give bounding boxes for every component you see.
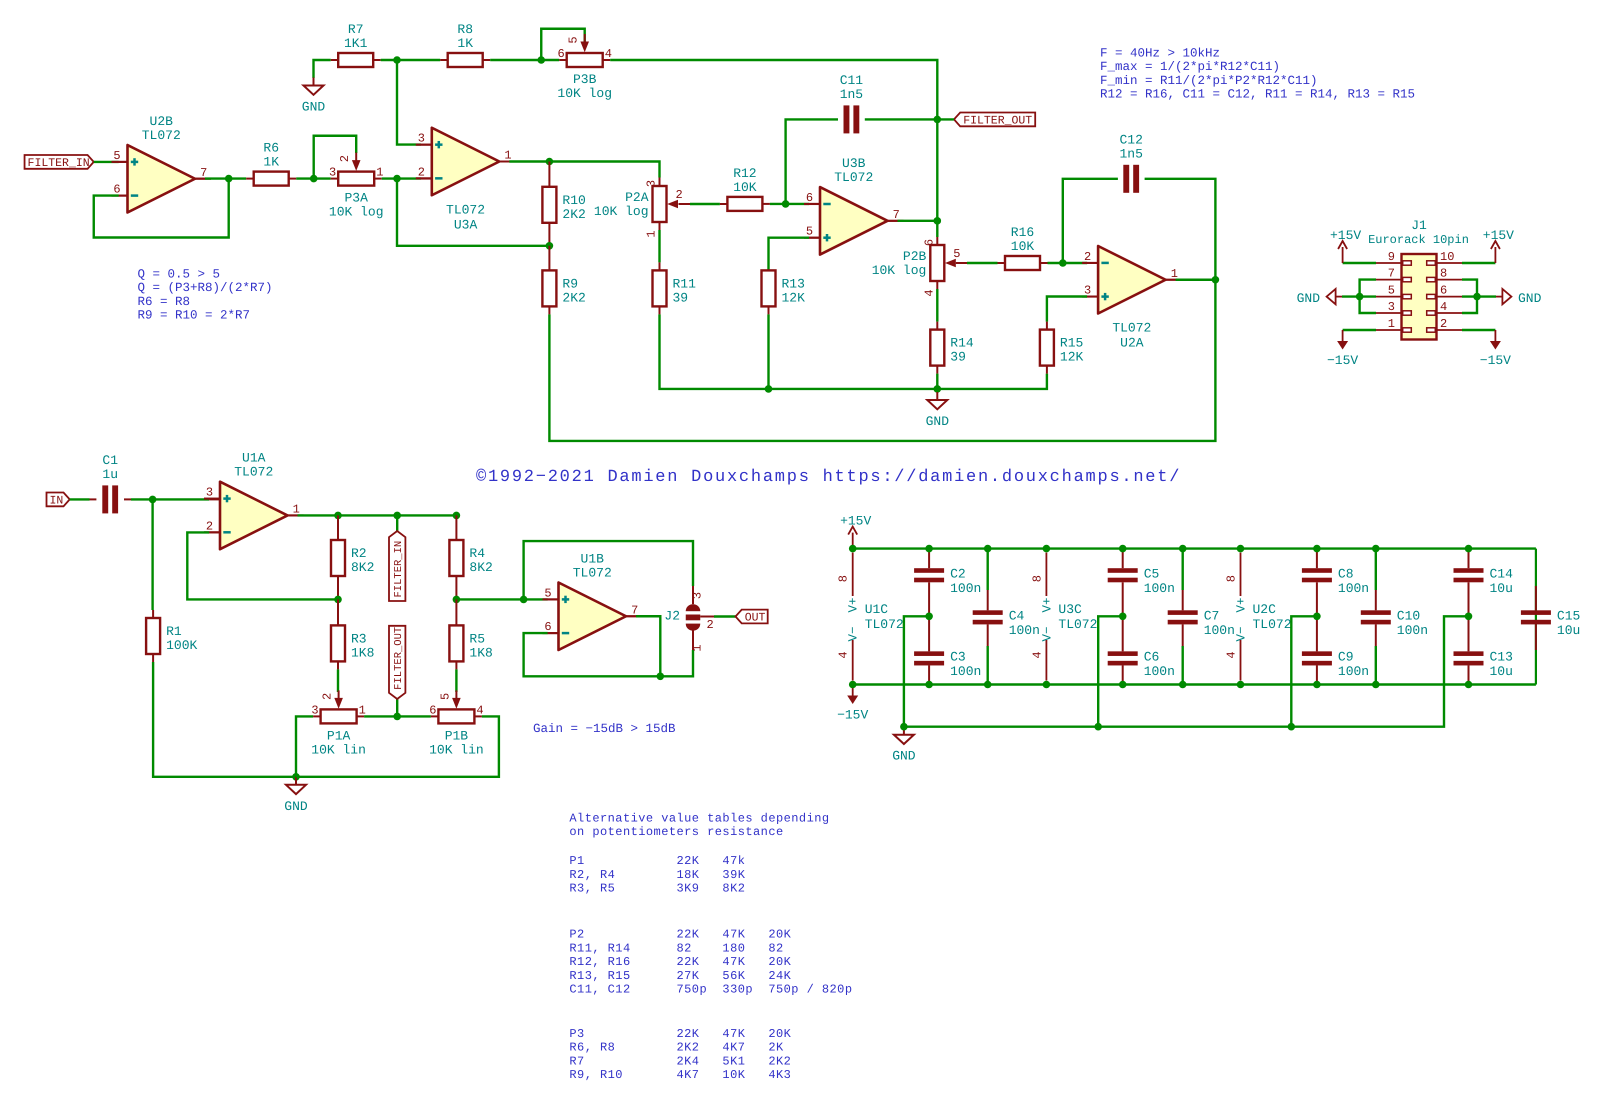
wire R3 to P1A wiper (337, 661, 339, 692)
svg-text:P1B: P1B (445, 728, 469, 743)
svg-text:9: 9 (1388, 250, 1395, 264)
wire J1 pin 9 to +15V (1343, 262, 1376, 264)
resistor R2 (331, 540, 374, 576)
junction -15V rail x=987.7 (984, 681, 992, 689)
wire R12 to U3B pin 6 (762, 203, 820, 205)
potentiometer P3A (329, 153, 384, 220)
junction U1A out R4 (453, 512, 461, 520)
potentiometer P2A (594, 180, 683, 238)
svg-text:U3A: U3A (454, 217, 478, 232)
wire FILTER_IN to U2B pin 5 (94, 161, 128, 163)
svg-text:6: 6 (429, 703, 436, 717)
svg-text:100n: 100n (1397, 623, 1428, 638)
junction +15V rail x=1122.7 (1119, 545, 1127, 553)
svg-text:V−: V− (1040, 626, 1054, 641)
svg-text:R9, R10 4K7 10K 4K3: R9, R10 4K7 10K 4K3 (569, 1068, 791, 1082)
svg-text:F = 40Hz > 10kHz: F = 40Hz > 10kHz (1100, 47, 1220, 61)
wire R14 bottom to ground bus (936, 366, 938, 389)
capacitor C7 (1168, 608, 1235, 638)
svg-text:P2A: P2A (625, 190, 649, 205)
junction J1 left GND (1356, 293, 1364, 301)
wire P3A to U3A pin 2 (374, 178, 432, 180)
wire R13 bottom to ground bus (768, 306, 770, 389)
svg-text:J1: J1 (1411, 218, 1427, 233)
resistor R4 (449, 540, 492, 576)
junction U1B pin5 feedback (520, 596, 528, 604)
svg-text:3: 3 (418, 132, 425, 146)
svg-text:10K: 10K (1011, 239, 1035, 254)
wire R5 top lead (455, 599, 457, 625)
wire P1B pin 4 to ground bus (296, 716, 499, 776)
svg-text:1: 1 (645, 230, 659, 237)
op-amp U1B (543, 552, 643, 651)
svg-text:100n: 100n (1338, 664, 1369, 679)
svg-text:−15V: −15V (1480, 353, 1511, 368)
svg-text:C9: C9 (1338, 649, 1354, 664)
power -15V right (1480, 330, 1511, 368)
power pins U2C (1225, 553, 1292, 681)
svg-text:6: 6 (557, 47, 564, 61)
svg-text:100n: 100n (1204, 623, 1235, 638)
svg-text:GND: GND (302, 100, 326, 115)
svg-text:1: 1 (691, 644, 705, 651)
svg-text:OUT: OUT (745, 612, 766, 625)
svg-text:−15V: −15V (837, 708, 868, 723)
J1 pin 3 (1376, 300, 1411, 315)
svg-text:FILTER_OUT: FILTER_OUT (393, 627, 405, 690)
svg-text:100n: 100n (1144, 664, 1175, 679)
notes gain (533, 722, 676, 736)
junction +15V rail x=987.7 (984, 545, 992, 553)
svg-text:2K2: 2K2 (562, 207, 585, 222)
svg-text:C10: C10 (1397, 608, 1420, 623)
svg-text:C11: C11 (840, 73, 864, 88)
resistor R15 (1040, 330, 1084, 366)
svg-text:TL072: TL072 (142, 128, 181, 143)
junction R10 R9 node (546, 242, 554, 250)
svg-text:100n: 100n (1009, 623, 1040, 638)
wire P1A pin 1 to P1B pin 6 (357, 715, 439, 717)
svg-text:TL072: TL072 (1253, 617, 1292, 632)
wire U3A output to P2A top (549, 162, 659, 186)
svg-text:−15V: −15V (1327, 353, 1358, 368)
wire feedback node to R9 R10 junction (397, 179, 549, 246)
svg-text:R11: R11 (673, 276, 697, 291)
resistor R12 (727, 166, 762, 211)
capacitor C10 (1361, 608, 1428, 638)
svg-text:7: 7 (1388, 267, 1395, 281)
svg-text:1K: 1K (457, 36, 473, 51)
svg-text:R15: R15 (1060, 336, 1083, 351)
svg-text:10K log: 10K log (594, 204, 649, 219)
wire R16 to U2A pin 2 (1040, 262, 1098, 264)
svg-text:C8: C8 (1338, 566, 1354, 581)
wire U2A pin 3 to R15 (1047, 297, 1098, 330)
wire J1 pin 2 to -15V (1462, 329, 1495, 331)
wire U2A output (1166, 279, 1216, 281)
J1 pin 6 (1427, 284, 1462, 299)
hierarchical label FILTER_OUT (954, 113, 1035, 128)
wire R9 bottom to U2A output feedback (549, 280, 1215, 441)
wire R1 top lead (151, 499, 154, 618)
wire J1 pin 10 to +15V (1462, 262, 1495, 264)
svg-text:2: 2 (676, 188, 683, 202)
junction ground bus left (900, 723, 908, 731)
wire R7 to R8 (373, 59, 448, 61)
wire down to U3A pin 3 (397, 60, 432, 145)
wire C8 C9 leads (1316, 549, 1318, 685)
svg-text:R7 2K4 5K1 2K2: R7 2K4 5K1 2K2 (569, 1054, 791, 1068)
ground symbol power section (892, 727, 916, 764)
op-amp U2A (1082, 246, 1182, 351)
svg-text:P3B: P3B (573, 72, 597, 87)
svg-text:Q = 0.5 > 5: Q = 0.5 > 5 (138, 268, 221, 282)
svg-text:100n: 100n (950, 581, 981, 596)
svg-text:U3C: U3C (1058, 602, 1082, 617)
wire R8 to P3B (483, 59, 567, 61)
svg-text:on potentiometers resistance: on potentiometers resistance (569, 825, 783, 839)
svg-text:R13, R15 27K 56K 24K: R13, R15 27K 56K 24K (569, 969, 791, 983)
svg-text:5: 5 (567, 36, 581, 43)
junction +15V rail x=1046.4 (1043, 545, 1051, 553)
power label GND right (1496, 289, 1542, 306)
svg-text:TL072: TL072 (446, 202, 485, 217)
svg-text:2: 2 (1084, 250, 1091, 264)
svg-text:C1: C1 (102, 453, 118, 468)
svg-text:2: 2 (707, 618, 714, 632)
wire R4 leads (455, 515, 457, 599)
ground symbol gain section (284, 777, 308, 814)
svg-text:4: 4 (922, 289, 936, 296)
power -15V supply (837, 685, 868, 723)
svg-text:C11, C12 750p 330p 750p: C11, C12 750p 330p 750p / 820p (569, 983, 852, 997)
svg-text:2: 2 (1440, 317, 1447, 331)
svg-text:100K: 100K (166, 638, 197, 653)
capacitor C6 (1108, 649, 1175, 679)
junction FILTER_OUT P1 node (393, 713, 401, 721)
capacitor C14 (1454, 566, 1514, 596)
wire R7 to ground (314, 60, 339, 78)
resistor R10 (542, 187, 585, 223)
potentiometer P1B (429, 690, 484, 757)
wire U3B output (888, 220, 938, 222)
power pins U1C (837, 553, 904, 681)
junction R4 R5 node (453, 596, 461, 604)
svg-text:C12: C12 (1119, 132, 1142, 147)
op-amp U3A (416, 128, 516, 233)
svg-text:Q = (P3+R8)/(2*R7): Q = (P3+R8)/(2*R7) (138, 281, 273, 295)
resistor R16 (1005, 225, 1040, 270)
svg-text:U1C: U1C (865, 602, 889, 617)
svg-text:8: 8 (1440, 267, 1447, 281)
junction +15V rail x=1468.5 (1465, 545, 1473, 553)
svg-text:C14: C14 (1490, 566, 1514, 581)
svg-text:4: 4 (837, 651, 851, 658)
junction U3A pin 2 node (393, 175, 401, 183)
wire C10 leads (1375, 549, 1377, 685)
J1 pin 1 (1376, 317, 1411, 332)
svg-text:4: 4 (1440, 300, 1447, 314)
wire C14 C13 leads (1468, 549, 1470, 685)
junction -15V rail x=1316.9 (1313, 681, 1321, 689)
svg-text:5: 5 (953, 247, 960, 261)
svg-text:R8: R8 (457, 22, 473, 37)
svg-text:+15V: +15V (840, 514, 871, 529)
svg-text:TL072: TL072 (1058, 617, 1097, 632)
svg-text:R6 = R8: R6 = R8 (138, 295, 191, 309)
svg-text:R1: R1 (166, 624, 182, 639)
junction U1A out R2 (334, 512, 342, 520)
svg-text:6: 6 (922, 239, 936, 246)
svg-text:GND: GND (926, 414, 950, 429)
junction +15V rail x=852.7 (849, 545, 857, 553)
svg-text:C7: C7 (1204, 608, 1220, 623)
svg-text:10: 10 (1440, 250, 1454, 264)
junction U2A output (1212, 276, 1220, 284)
capacitor C3 (914, 649, 981, 679)
wire C15 leads (1535, 586, 1537, 650)
svg-text:FILTER_IN: FILTER_IN (28, 157, 90, 170)
J1 pin 9 (1376, 250, 1411, 265)
capacitor C4 (973, 608, 1040, 638)
svg-text:6: 6 (806, 191, 813, 205)
svg-text:2: 2 (338, 155, 352, 162)
svg-text:U2C: U2C (1253, 602, 1277, 617)
svg-text:8: 8 (1225, 575, 1239, 582)
svg-text:R16: R16 (1011, 225, 1034, 240)
svg-text:8K2: 8K2 (351, 560, 374, 575)
power +15V supply (840, 514, 871, 549)
svg-text:P3 22K 47K 20K: P3 22K 47K 20K (569, 1027, 791, 1041)
wire C11 to FILTER_OUT junction (865, 118, 938, 120)
svg-text:12K: 12K (1060, 350, 1084, 365)
svg-text:GND: GND (1297, 291, 1321, 306)
capacitor C1 (102, 453, 118, 513)
svg-text:J2: J2 (664, 609, 680, 624)
junction R6 P3A node (310, 175, 318, 183)
wire C5 C6 leads (1122, 549, 1124, 685)
svg-text:R3, R5 3K9 8K2: R3, R5 3K9 8K2 (569, 882, 745, 896)
wire R11 bottom to ground bus (660, 306, 1047, 389)
svg-text:R11, R14 82 180 82: R11, R14 82 180 82 (569, 941, 783, 955)
svg-text:Gain = −15dB > 15dB: Gain = −15dB > 15dB (533, 722, 676, 736)
junction +15V rail x=1316.9 (1313, 545, 1321, 553)
svg-text:100n: 100n (1338, 581, 1369, 596)
svg-text:39: 39 (673, 290, 689, 305)
svg-text:FILTER_IN: FILTER_IN (393, 541, 405, 598)
wire P2B wiper to R16 (956, 262, 1005, 264)
svg-text:P2 22K 47K 20K: P2 22K 47K 20K (569, 928, 791, 942)
resistor R13 (762, 270, 806, 306)
wire U2B output (195, 178, 254, 180)
svg-text:1K8: 1K8 (469, 645, 492, 660)
svg-text:3: 3 (645, 180, 659, 187)
wire R6 to P3A (289, 178, 339, 180)
wire P3A wiper loop (314, 136, 357, 179)
junction +15V rail x=1240.5 (1237, 545, 1245, 553)
svg-text:R12: R12 (733, 166, 756, 181)
wire C2 C3 mid to ground bus (904, 616, 929, 726)
hierarchical label OUT (736, 610, 768, 625)
svg-text:4: 4 (1030, 651, 1044, 658)
svg-text:2: 2 (321, 693, 335, 700)
resistor R9 (542, 270, 585, 306)
junction mid node x=1316.9 (1313, 613, 1321, 621)
junction mid node x=1468.5 (1465, 613, 1473, 621)
junction R7 R8 node (393, 56, 401, 64)
wire P3B to FILTER_OUT node (603, 60, 938, 119)
svg-text:R4: R4 (469, 546, 485, 561)
wire right edge C15 column (1535, 549, 1537, 685)
svg-text:TL072: TL072 (1112, 321, 1151, 336)
capacitor C12 (1119, 132, 1142, 192)
svg-text:U2A: U2A (1120, 336, 1144, 351)
svg-text:TL072: TL072 (865, 617, 904, 632)
resistor R8 (448, 22, 483, 67)
wire IN to C1 (70, 498, 97, 500)
svg-text:1K: 1K (263, 155, 279, 170)
svg-text:Alternative value tables depen: Alternative value tables depending (569, 811, 829, 825)
junction U3A output (546, 158, 554, 166)
potentiometer P3B (557, 34, 612, 101)
svg-text:V+: V+ (1235, 597, 1249, 612)
svg-text:6: 6 (1440, 284, 1447, 298)
svg-text:U1B: U1B (581, 552, 605, 567)
ground symbol top (302, 78, 326, 115)
notes Q formulas (138, 268, 273, 323)
svg-text:4: 4 (1225, 651, 1239, 658)
svg-text:2: 2 (418, 165, 425, 179)
svg-text:1n5: 1n5 (840, 87, 863, 102)
wire C12 to U2A output (1145, 179, 1216, 280)
wire P1A pin 3 to ground (296, 716, 321, 776)
svg-text:8K2: 8K2 (469, 560, 492, 575)
junction ground bus GND (292, 773, 300, 781)
wire P2B bottom to R14 (936, 281, 938, 330)
junction R2 R3 node (334, 596, 342, 604)
svg-text:5: 5 (1388, 284, 1395, 298)
J1 pin 8 (1427, 267, 1462, 282)
junction R14 ground bus (934, 385, 942, 393)
wire P3B wiper loop (541, 29, 584, 60)
svg-text:R6: R6 (263, 141, 279, 156)
resistor R1 (146, 618, 197, 654)
svg-text:R12 = R16, C11 = C12, R11 = R1: R12 = R16, C11 = C12, R11 = R14, R13 = R… (1100, 87, 1415, 101)
capacitor C15 (1521, 608, 1580, 638)
hierarchical label FILTER_OUT vertical (396, 699, 398, 716)
capacitor C2 (914, 566, 981, 596)
svg-text:3: 3 (329, 166, 336, 180)
wire U3B pin 5 to R13 (769, 238, 821, 271)
svg-text:10u: 10u (1557, 623, 1580, 638)
svg-text:1u: 1u (102, 467, 118, 482)
svg-text:R10: R10 (562, 193, 585, 208)
svg-text:12K: 12K (782, 290, 806, 305)
wire C11 branch (786, 119, 838, 203)
svg-text:2K2: 2K2 (562, 290, 585, 305)
resistor R3 (331, 625, 374, 661)
resistor R7 (338, 22, 373, 67)
svg-text:R14: R14 (950, 336, 974, 351)
junction mid node x=929.1 (925, 613, 933, 621)
wire J1 pin 6 to GND (1462, 295, 1496, 297)
junction R12 C11 node (782, 200, 790, 208)
junction R16 C12 node (1059, 259, 1067, 267)
wire C12 branch (1063, 179, 1118, 263)
svg-text:3: 3 (691, 592, 705, 599)
wire P2A wiper to R12 (679, 203, 728, 205)
svg-text:R9 = R10 = 2*R7: R9 = R10 = 2*R7 (138, 309, 251, 323)
svg-text:V+: V+ (847, 597, 861, 612)
svg-text:+15V: +15V (1483, 228, 1514, 243)
J1 pin 2 (1427, 317, 1462, 332)
svg-text:3: 3 (206, 486, 213, 500)
junction -15V rail x=1122.7 (1119, 681, 1127, 689)
junction -15V rail x=929.1 (925, 681, 933, 689)
hierarchical label IN (47, 493, 70, 508)
svg-text:Eurorack 10pin: Eurorack 10pin (1368, 233, 1469, 247)
svg-text:V+: V+ (1040, 597, 1054, 612)
capacitor C5 (1108, 566, 1175, 596)
junction U2B output (225, 175, 233, 183)
svg-text:10K log: 10K log (329, 205, 384, 220)
wire J1 pins 7 5 3 tie left (1360, 280, 1376, 313)
svg-text:V−: V− (847, 626, 861, 641)
resistor R6 (254, 141, 289, 186)
junction ground bus U3C (1094, 723, 1102, 731)
junction U1A out FILTER_IN (393, 512, 401, 520)
svg-text:F_max = 1/(2*pi*R12*C11): F_max = 1/(2*pi*R12*C11) (1100, 60, 1280, 74)
svg-text:8: 8 (1030, 575, 1044, 582)
svg-text:GND: GND (892, 749, 916, 764)
resistor R14 (930, 330, 974, 366)
svg-text:1n5: 1n5 (1119, 146, 1142, 161)
wire R2 leads (337, 515, 339, 599)
svg-text:P1 22K 47k: P1 22K 47k (569, 854, 745, 868)
junction +15V rail x=1182.7 (1179, 545, 1187, 553)
wire C4 leads (987, 549, 989, 685)
wire R15 bottom lead (1046, 366, 1048, 374)
wire U1B top feedback to J2 pin 3 (524, 541, 693, 604)
svg-text:10K log: 10K log (557, 86, 612, 101)
hierarchical label FILTER_IN (25, 155, 94, 170)
wire bottom loop to U1B pin 6 (524, 630, 693, 676)
svg-text:10K lin: 10K lin (311, 742, 366, 757)
wire R9 top lead (548, 246, 550, 271)
wire R4 R5 node to U1B pin 5 (456, 598, 558, 600)
wire J2 pin 2 to OUT (700, 616, 735, 618)
svg-text:TL072: TL072 (573, 566, 612, 581)
svg-text:GND: GND (284, 799, 308, 814)
svg-text:P3A: P3A (344, 191, 368, 206)
svg-text:R2: R2 (351, 546, 367, 561)
svg-text:R2, R4 18K 39K: R2, R4 18K 39K (569, 868, 745, 882)
svg-text:C3: C3 (950, 649, 966, 664)
junction mid node x=1122.7 (1119, 613, 1127, 621)
svg-text:P2B: P2B (903, 249, 927, 264)
svg-text:C5: C5 (1144, 566, 1160, 581)
svg-text:8: 8 (837, 575, 851, 582)
wire U1A output (288, 514, 457, 516)
svg-text:10u: 10u (1490, 664, 1513, 679)
svg-text:1: 1 (1388, 317, 1395, 331)
svg-text:10u: 10u (1490, 581, 1513, 596)
junction C1 R1 node (149, 496, 157, 504)
notes copyright (476, 468, 1181, 487)
svg-text:C13: C13 (1490, 649, 1513, 664)
junction -15V rail x=1046.4 (1043, 681, 1051, 689)
svg-text:F_min = R11/(2*pi*P2*R12*C11): F_min = R11/(2*pi*P2*R12*C11) (1100, 74, 1318, 88)
